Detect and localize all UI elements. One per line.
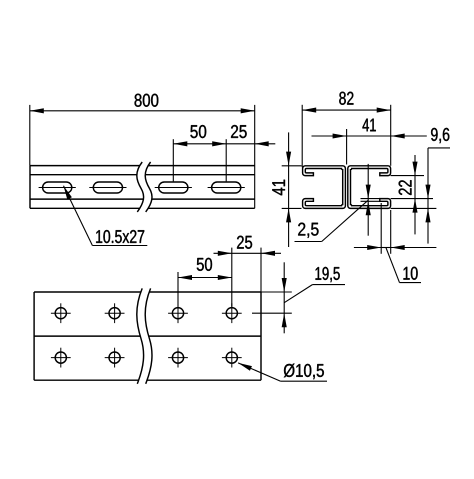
dimension 41 (height, between views) [282, 165, 302, 167]
cross-section profile: right channel (mirrored) [348, 166, 391, 209]
cross-section profile: left channel [303, 166, 346, 209]
dimension 82 [301, 105, 303, 168]
dimension 19,5 [261, 291, 292, 293]
break lines (side view) [137, 162, 152, 212]
dimension 10 (lip length) [380, 203, 382, 254]
dimension 25 (top view) [260, 248, 262, 292]
label 10.5x27 with leader [64, 186, 93, 246]
holes Ø10,5 with center crosses [55, 308, 66, 319]
dimension 50 (top view) [177, 272, 179, 307]
label Ø10,5 with leader [238, 363, 281, 381]
dimension 9,6 (lip) [427, 148, 429, 244]
dimension 25 (side view) [226, 143, 275, 145]
top view outline [34, 291, 261, 293]
dimension 22 (slot opening) [414, 155, 416, 234]
side view rail outline [30, 165, 255, 167]
dimension 800 [29, 105, 31, 166]
dimension 2,5 (wall thickness) [361, 198, 380, 200]
dimension 41 (half width) [346, 129, 348, 165]
dimension 50 (side view) [172, 139, 174, 181]
slotted holes 10.5x27 with centerlines [43, 182, 72, 193]
break lines (top view) [137, 288, 152, 383]
